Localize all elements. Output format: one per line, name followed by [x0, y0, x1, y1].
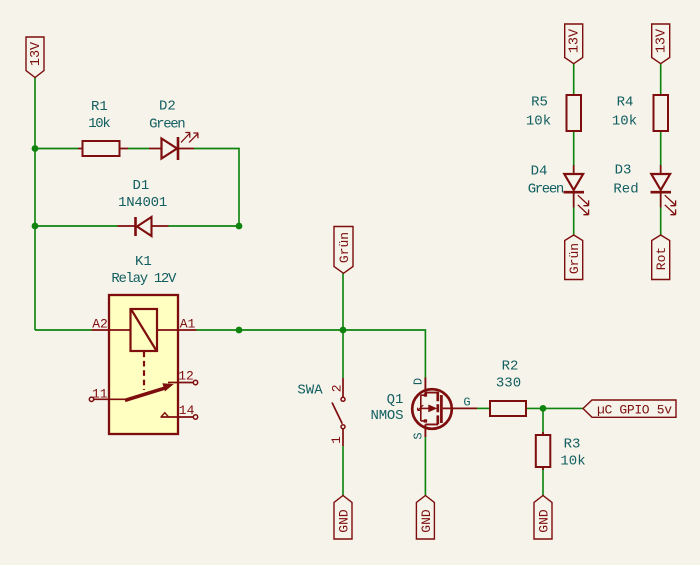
node junction R2/R3 [540, 405, 547, 412]
svg-text:10k: 10k [560, 454, 585, 470]
transistor Q1 NMOS [371, 378, 478, 440]
svg-text:SWA: SWA [297, 383, 323, 399]
wire D1 row [35, 225, 239, 227]
svg-text:12: 12 [178, 368, 194, 383]
svg-text:GND: GND [537, 509, 552, 533]
global label Gruen bottom [565, 235, 583, 280]
wire 13V to R5 [573, 64, 575, 95]
Q1 drain pin [425, 378, 438, 393]
Q1 gate bar [440, 395, 443, 423]
wire Q1 gate to R2 [477, 407, 490, 409]
resistor R3 [536, 432, 586, 470]
wire relay A1 to Q1 drain [197, 330, 426, 378]
svg-text:G: G [463, 396, 470, 410]
resistor R2 [490, 358, 526, 416]
relay pin 11 [89, 397, 93, 401]
LED D3 [613, 162, 675, 214]
relay K1 [89, 254, 197, 434]
resistor R1 [78, 99, 128, 156]
Q1 channel segments [436, 392, 439, 424]
svg-text:A2: A2 [92, 317, 108, 332]
relay pin A2 [92, 329, 131, 331]
svg-text:µC GPIO 5v: µC GPIO 5v [597, 402, 672, 417]
relay dashed actuator line [143, 352, 145, 391]
wire R3 to GND [542, 467, 544, 496]
wire relay A2 [35, 329, 92, 331]
power flag 13V over R5 [565, 24, 583, 64]
wire R2 to uC label [526, 407, 583, 409]
svg-text:R2: R2 [502, 358, 519, 374]
svg-text:S: S [412, 432, 426, 439]
ground flag GND under R3 [534, 496, 552, 540]
ground flag GND under Q1 [416, 496, 434, 540]
ground flag GND under SWA [334, 496, 352, 540]
Q1 body diode mark [418, 405, 424, 410]
global label Gruen top [334, 227, 353, 274]
node junction left D1 [32, 223, 39, 230]
svg-text:1: 1 [329, 436, 344, 444]
svg-text:13V: 13V [29, 41, 44, 66]
Q1 body line [421, 395, 426, 421]
svg-text:K1: K1 [135, 254, 152, 270]
svg-text:D1: D1 [132, 178, 149, 194]
svg-text:Rot: Rot [654, 247, 669, 270]
node junction A1 wire [236, 327, 243, 334]
node junction Gruen/SWA [340, 327, 347, 334]
svg-text:330: 330 [496, 375, 521, 391]
power flag 13V over R4 [652, 24, 670, 64]
svg-text:Green: Green [528, 181, 565, 197]
wire R5 to D4 [573, 131, 575, 174]
wire Q1 source to GND [424, 437, 426, 496]
svg-text:10k: 10k [88, 116, 111, 132]
svg-text:R1: R1 [91, 99, 108, 115]
svg-text:14: 14 [179, 403, 195, 418]
wire junction to R3 [542, 408, 544, 435]
relay pin 14 [193, 415, 197, 419]
global label uC GPIO 5v [583, 400, 676, 417]
wire D4 to Gruen label [573, 193, 575, 235]
wire Gruen label to junction [342, 273, 344, 378]
svg-text:NMOS: NMOS [371, 408, 404, 424]
svg-text:R4: R4 [617, 95, 634, 111]
switch SWA [297, 378, 345, 446]
svg-text:Relay 12V: Relay 12V [111, 271, 177, 287]
wire D3 to Rot label [660, 193, 662, 235]
svg-text:R3: R3 [564, 437, 581, 453]
svg-text:Grün: Grün [567, 243, 582, 274]
relay pin 12 [193, 380, 197, 384]
svg-text:A1: A1 [180, 317, 196, 332]
svg-text:10k: 10k [612, 113, 637, 129]
Q1 gate pin [443, 407, 477, 409]
svg-text:Q1: Q1 [387, 392, 404, 408]
svg-text:13V: 13V [568, 28, 583, 53]
node junction 13V/R1 [32, 145, 39, 152]
svg-text:13V: 13V [655, 28, 670, 53]
svg-text:2: 2 [330, 384, 345, 392]
LED D4 [528, 164, 589, 215]
node junction right D1 [236, 223, 243, 230]
wire top row R1-D2 [35, 149, 239, 227]
relay coil [131, 309, 158, 351]
svg-text:Green: Green [149, 117, 186, 133]
wire 13V left vertical [34, 78, 36, 331]
wire 13V to R4 [660, 64, 662, 95]
svg-text:R5: R5 [531, 95, 548, 111]
resistor R4 [612, 95, 668, 131]
global label Rot [652, 235, 670, 280]
wire R4 to D3 [660, 131, 662, 174]
svg-text:1N4001: 1N4001 [118, 195, 167, 211]
svg-text:11: 11 [92, 387, 108, 402]
svg-text:D2: D2 [159, 99, 176, 115]
Q1 substrate arrow [421, 407, 429, 409]
svg-text:10k: 10k [526, 113, 551, 129]
LED D2 [149, 99, 198, 160]
svg-text:D: D [412, 378, 426, 385]
power flag 13V left [26, 37, 44, 78]
svg-text:GND: GND [337, 509, 352, 533]
diode D1 [118, 178, 169, 236]
svg-text:Red: Red [613, 181, 638, 197]
relay pin A1 [157, 329, 197, 331]
svg-text:Grün: Grün [337, 232, 352, 263]
svg-text:GND: GND [419, 509, 434, 533]
relay blade with arrow [125, 388, 165, 400]
svg-text:D4: D4 [531, 164, 548, 180]
Q1 source pin [425, 424, 438, 437]
wire SWA to GND [342, 446, 344, 496]
resistor R5 [526, 95, 581, 131]
svg-text:D3: D3 [615, 162, 632, 178]
